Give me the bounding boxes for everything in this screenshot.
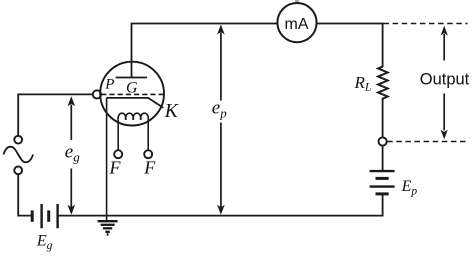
svg-text:F: F bbox=[109, 158, 122, 178]
wire node to battery Ep bbox=[382, 146, 384, 171]
grid cap terminal bbox=[93, 90, 101, 98]
AC source top terminal bbox=[14, 136, 22, 144]
wire resistor to node bbox=[382, 98, 384, 137]
svg-text:K: K bbox=[164, 101, 179, 122]
filament heater coil bbox=[118, 113, 148, 120]
wire AC source up to grid terminal bbox=[18, 94, 93, 135]
milliammeter mA bbox=[277, 3, 316, 42]
wire left bottom corner to Eg bbox=[18, 175, 32, 216]
ground bbox=[98, 221, 118, 234]
svg-text:mA: mA bbox=[285, 16, 309, 33]
svg-text:G: G bbox=[126, 79, 138, 96]
AC source bottom terminal bbox=[14, 166, 22, 174]
eg arrow up head bbox=[68, 96, 76, 106]
eg arrow shaft upper bbox=[70, 105, 72, 141]
wire plate lead from tube to top wire bbox=[131, 24, 133, 78]
AC source sine wave bbox=[4, 147, 34, 163]
svg-text:Output: Output bbox=[420, 71, 470, 89]
battery Eg bbox=[32, 204, 57, 228]
cathode electrode bbox=[107, 98, 164, 108]
filament terminal right bbox=[144, 150, 152, 158]
eg arrow down head bbox=[68, 205, 76, 215]
eg arrow shaft lower bbox=[70, 169, 72, 208]
dashed output line bottom bbox=[387, 141, 467, 143]
output arrow up head bbox=[441, 26, 448, 36]
ep arrow shaft upper bbox=[220, 33, 222, 101]
filament lead right bbox=[147, 120, 149, 150]
output arrow shaft lower bbox=[443, 94, 445, 131]
grid electrode (dashed) bbox=[101, 93, 164, 95]
output arrow shaft upper bbox=[443, 34, 445, 61]
plate electrode bbox=[116, 77, 148, 79]
ep arrow down head bbox=[217, 205, 225, 215]
battery Ep bbox=[370, 171, 395, 194]
filament terminal left bbox=[114, 150, 122, 158]
tube envelope U1 bbox=[100, 62, 164, 126]
ep arrow up head bbox=[217, 25, 225, 35]
wire cathode to ground bbox=[106, 98, 108, 221]
wire Ep to bottom wire bbox=[382, 195, 384, 216]
svg-text:P: P bbox=[104, 76, 114, 92]
dashed output line top bbox=[384, 23, 468, 25]
ep arrow shaft lower bbox=[220, 123, 222, 208]
resistor RL zigzag bbox=[378, 67, 388, 99]
filament lead left bbox=[117, 120, 119, 150]
wire bottom bus bbox=[58, 215, 384, 217]
wire right drop to resistor bbox=[382, 23, 384, 67]
output arrow down head bbox=[441, 130, 448, 140]
gray stub above meter bbox=[295, 0, 299, 4]
wire top left of meter bbox=[131, 23, 278, 25]
svg-text:F: F bbox=[143, 158, 156, 178]
node (open terminal after RL) bbox=[379, 137, 387, 145]
wire top right of meter to corner bbox=[316, 23, 382, 25]
